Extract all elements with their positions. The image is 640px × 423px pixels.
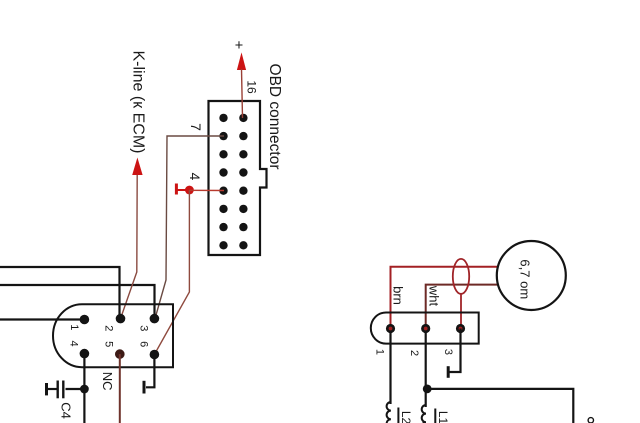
svg-text:wht: wht <box>426 285 441 307</box>
svg-text:2: 2 <box>103 325 115 331</box>
svg-text:L2: L2 <box>399 411 413 423</box>
svg-text:4: 4 <box>68 341 80 347</box>
junction dot on pin 4 wire <box>80 385 89 394</box>
OBD connector body <box>209 101 267 255</box>
terminal bar below pin 6 <box>143 381 146 394</box>
terminal bar below pin 3 X2 <box>447 366 450 378</box>
wire junction right and down at image edge <box>426 389 573 423</box>
svg-text:6,7 om: 6,7 om <box>517 259 532 299</box>
wire from left edge to pin 1 of connector X1 <box>0 318 84 320</box>
wire tap dot to OBD pin row <box>189 189 224 191</box>
svg-text:3: 3 <box>138 325 150 331</box>
wire pin 5 down (NC, dark red) <box>119 354 121 423</box>
wire from left edge to pin 2 of connector X1 <box>0 267 120 319</box>
resistor body circle 6,7 om <box>497 241 566 310</box>
K-line wire from pin 2 up to arrow <box>121 174 138 319</box>
connector X2 body (3 pin) <box>371 313 479 344</box>
tap junction dot <box>185 186 194 195</box>
wire tap dot down to pin 6 of connector X1 <box>154 190 189 355</box>
capacitor C4 plates <box>62 381 64 399</box>
svg-text:6: 6 <box>138 341 150 347</box>
connector X2 pins <box>386 324 465 333</box>
OBD connector pins (2x8 grid) <box>219 114 247 250</box>
coil L1 <box>422 405 426 423</box>
svg-text:brn: brn <box>391 286 406 305</box>
wire pin 1 X2 down to coil L2 <box>389 329 391 405</box>
wire pin 4 down <box>83 354 85 423</box>
svg-text:C4: C4 <box>59 402 74 419</box>
svg-text:2: 2 <box>408 350 420 356</box>
svg-text:+: + <box>235 38 243 54</box>
wire from left edge to pin 3 of connector X1 <box>0 285 155 319</box>
svg-text:1: 1 <box>68 324 80 330</box>
svg-text:3: 3 <box>442 349 454 355</box>
tap stub wire <box>176 189 186 191</box>
junction dot on pin 2 X2 wire <box>423 385 432 394</box>
wire pin 2 X2 down to coil L1 <box>425 329 427 408</box>
small glyph at lower right <box>588 418 593 423</box>
brn wire: pin 1 of X2 up and right to resistor <box>391 267 501 329</box>
svg-text:4: 4 <box>187 173 203 181</box>
plus arrowhead <box>237 52 246 70</box>
connector X1 pins <box>80 315 90 325</box>
svg-text:L1: L1 <box>436 411 450 423</box>
wire pin 6 down to terminal bar <box>146 355 154 388</box>
wire from OBD pin 7 down to pin 3 of connector X1 <box>155 136 224 319</box>
tap terminal bar at pin 4 line <box>175 184 178 195</box>
core bar L1 <box>434 409 436 423</box>
svg-text:OBD connector: OBD connector <box>266 64 283 170</box>
svg-text:NC: NC <box>100 372 115 391</box>
terminal bar left of C4 <box>45 383 48 395</box>
wht wire: pin 2 of X2 up and right to resistor <box>426 285 500 329</box>
svg-text:7: 7 <box>188 123 204 131</box>
svg-text:1: 1 <box>373 349 385 355</box>
wire plus arrow to OBD pin 16 <box>242 69 243 118</box>
wire ellipse bottom to pin 3 of X2 <box>460 294 462 329</box>
coil L2 <box>387 402 391 423</box>
wire pin 3 X2 down to terminal bar <box>449 329 461 373</box>
wire C4 to terminal bar <box>47 388 57 390</box>
svg-text:5: 5 <box>103 341 115 347</box>
K-line arrowhead <box>132 158 142 176</box>
svg-text:K-line (к ECM): K-line (к ECM) <box>130 50 147 153</box>
wire junction to capacitor C4 <box>66 388 85 390</box>
shield loop ellipse <box>453 259 469 294</box>
connector X1 body (6 pin) <box>53 304 173 367</box>
svg-text:16: 16 <box>245 80 259 94</box>
core bar L2 <box>397 408 399 423</box>
